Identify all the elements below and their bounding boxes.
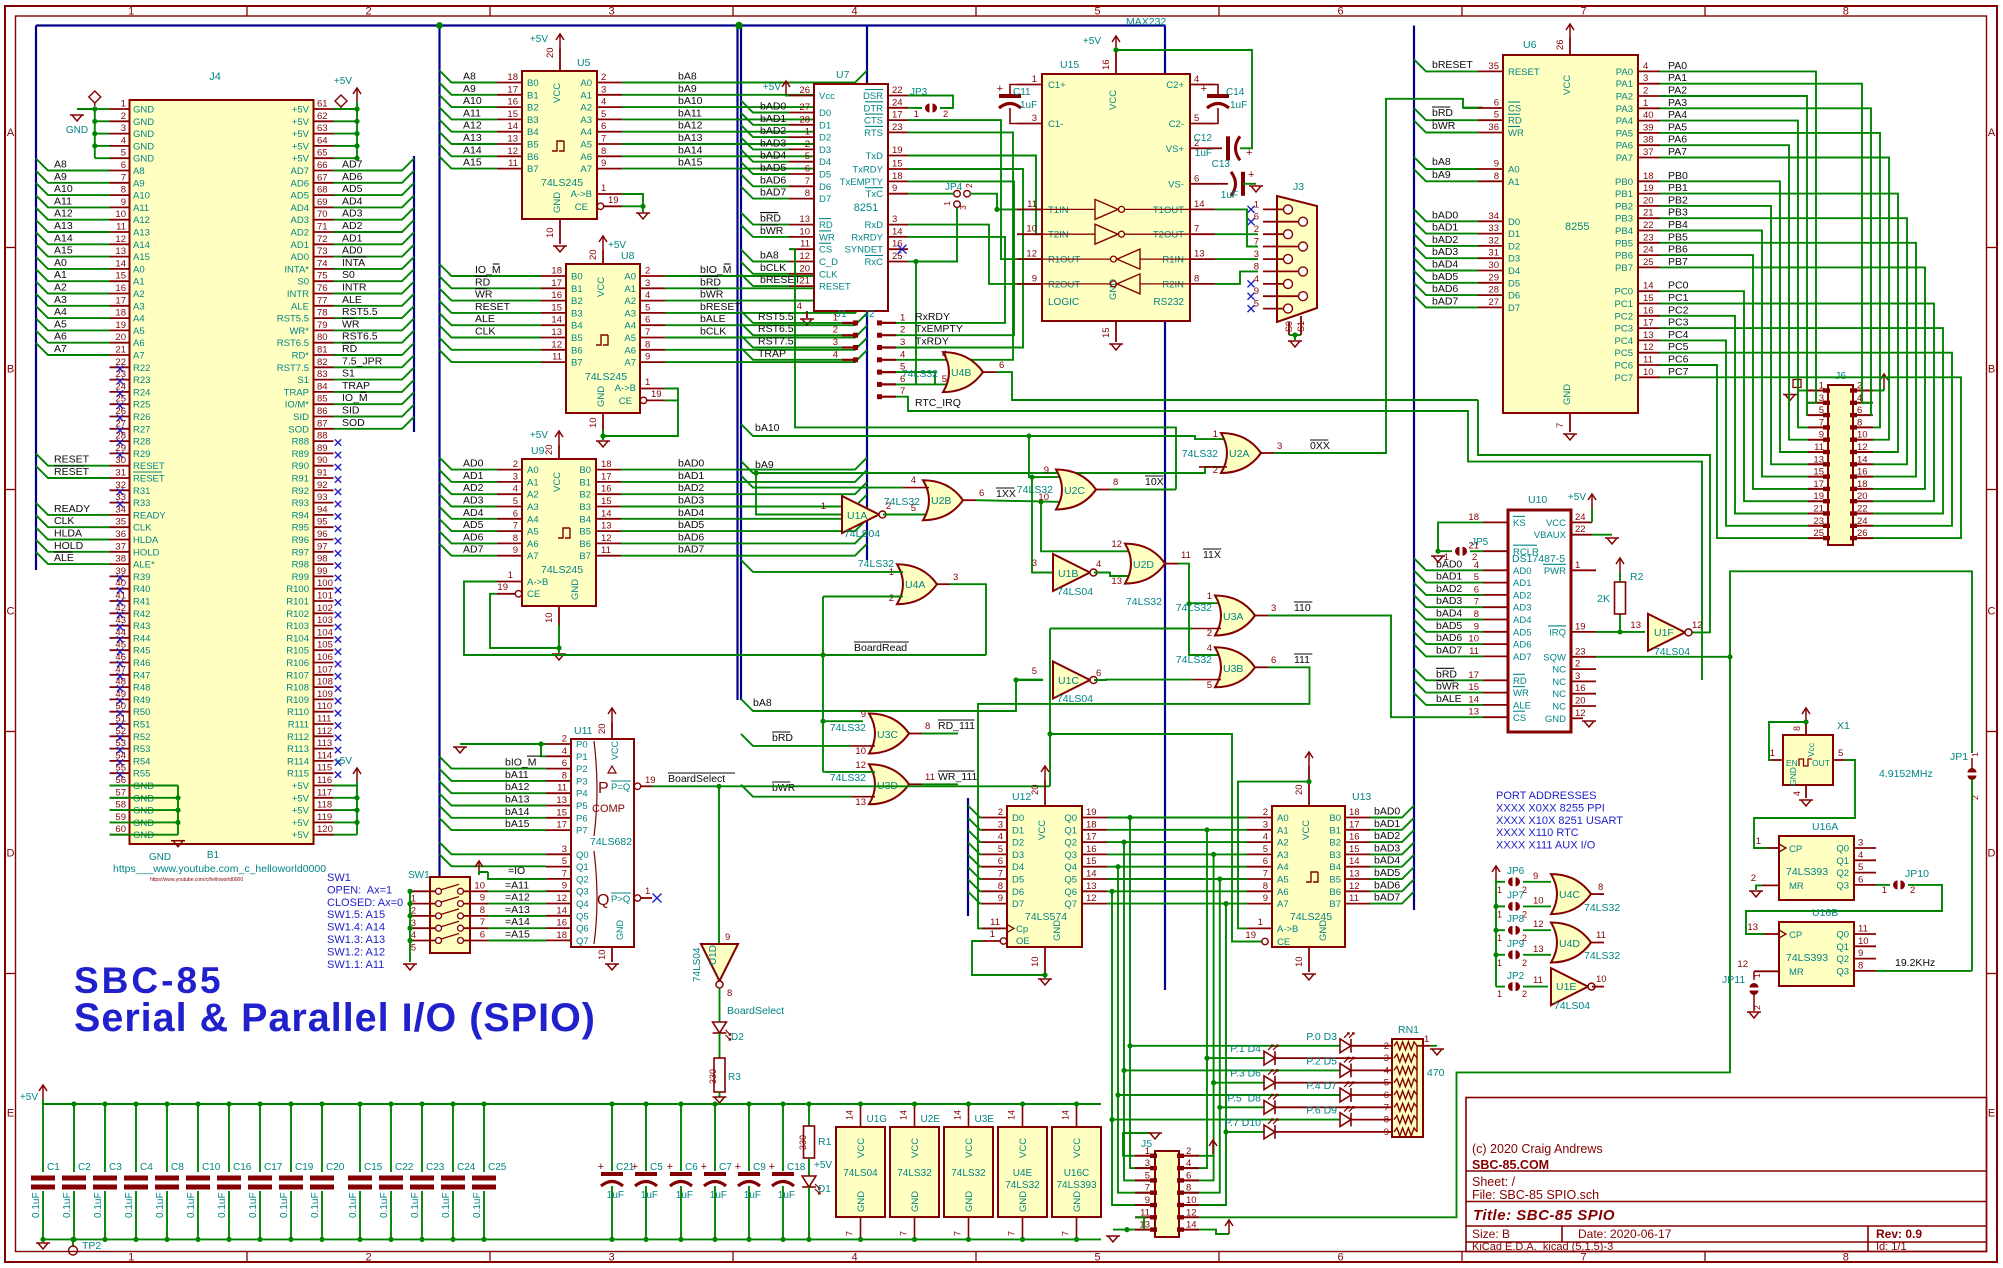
svg-text:R106: R106 [286,658,309,669]
svg-text:Q6: Q6 [576,924,589,935]
U7 pin D6 [789,185,814,187]
svg-text:P=Q: P=Q [611,782,630,793]
svg-text:20: 20 [588,249,599,260]
svg-text:RESET: RESET [54,466,90,478]
svg-text:R45: R45 [133,646,150,657]
U6 pin PB3 [1638,217,1660,219]
svg-text:14: 14 [556,905,567,916]
svg-text:7: 7 [1007,1231,1017,1236]
svg-text:A2: A2 [527,490,539,501]
svg-text:INTR: INTR [287,289,309,300]
svg-text:16: 16 [115,283,126,294]
U12 OE pin 1 [1000,938,1006,944]
wire READY J4 [36,503,110,515]
svg-text:AD1: AD1 [291,240,309,251]
svg-text:15: 15 [507,109,518,120]
svg-text:74LS32: 74LS32 [1005,1180,1040,1191]
svg-text:JP8: JP8 [1507,914,1525,925]
wire bAD0 U13 right [1370,806,1414,818]
capacitor C16 0.1uF [228,1104,230,1172]
svg-text:U4D: U4D [1559,938,1580,950]
ic U16B 74LS393 [1779,922,1854,986]
svg-text:bWR: bWR [1432,120,1456,132]
wire 19.2KHz from U16B Q3 [1876,970,1972,972]
svg-text:113: 113 [317,738,332,749]
capacitor C17 0.1uF [259,1104,261,1172]
wire INTA J4 right [334,257,415,269]
wire bWR [851,796,875,798]
svg-text:CE: CE [1277,937,1290,948]
wire 11X from U2D [1165,563,1178,565]
svg-text:D4: D4 [1012,862,1024,873]
wire bAD5 U10 [1414,620,1483,632]
ic U5 74LS245 [522,71,597,219]
svg-text:10: 10 [545,227,556,238]
svg-text:P>Q: P>Q [611,894,630,905]
U7 pin WR [789,236,814,238]
svg-text:KiCad E.D.A. kicad (5.1.5)-3: KiCad E.D.A. kicad (5.1.5)-3 [1472,1241,1613,1253]
J5 pin 1 ground [1123,1133,1150,1156]
ic U6 8255 [1503,55,1638,413]
svg-text:A1: A1 [1277,825,1289,836]
U10 pin AD0 [1483,569,1508,571]
svg-text:65: 65 [317,148,328,159]
svg-text:28: 28 [799,114,810,125]
svg-text:10: 10 [1858,936,1869,947]
svg-text:78: 78 [317,308,328,319]
wire bCLK U8 right [665,326,867,338]
wire bA10 [741,424,1229,439]
svg-text:+5V: +5V [292,105,310,116]
wire J6 pin 8 [1660,133,1880,428]
svg-text:PB2: PB2 [1615,201,1633,212]
svg-text:VBAUX: VBAUX [1534,530,1567,541]
svg-text:bAD0: bAD0 [1432,209,1458,221]
svg-text:P3: P3 [576,776,588,787]
svg-text:PB6: PB6 [1668,244,1688,256]
wire R1IN to J3-3 [1215,258,1258,260]
svg-text:3: 3 [1145,1158,1150,1169]
svg-text:C22: C22 [395,1162,414,1173]
capacitor C5 1uF [645,1104,647,1171]
U12 VCC +5V [1044,780,1046,806]
svg-text:PWR: PWR [1544,566,1566,577]
U10 pin AD1 [1483,582,1508,584]
svg-text:bAD4: bAD4 [678,507,704,519]
U6 pin PA2 [1638,95,1660,97]
svg-text:VCC: VCC [610,740,620,760]
U7 pin CTS [888,119,908,121]
svg-text:10: 10 [1857,430,1868,441]
svg-text:C20: C20 [326,1162,345,1173]
svg-text:SOD: SOD [342,417,365,429]
svg-text:2: 2 [1910,885,1915,896]
svg-text:U2B: U2B [931,495,951,507]
J3 pin 1 [1284,205,1293,214]
svg-text:9: 9 [998,893,1003,904]
U15 pin C2+ [1190,84,1215,86]
svg-text:2: 2 [1384,1041,1389,1052]
svg-text:A6: A6 [527,539,539,550]
svg-text:A0: A0 [1508,165,1520,176]
svg-text:1: 1 [508,570,513,581]
svg-text:VCC: VCC [1546,518,1566,529]
wire 110 from U3A to U10 CS [1255,615,1268,617]
wire A10 U5 [440,95,498,107]
U16B pin Q3 [1854,970,1876,972]
svg-text:0.1uF: 0.1uF [31,1192,42,1218]
svg-text:11: 11 [1533,975,1543,986]
svg-text:TxC: TxC [866,189,884,200]
svg-text:2: 2 [1751,873,1756,884]
svg-text:A13: A13 [133,228,150,239]
svg-text:VCC: VCC [910,1138,921,1158]
or-gate U4C 74LS32 [1551,874,1591,914]
svg-text:15: 15 [1086,856,1097,867]
svg-text:6: 6 [1096,668,1101,679]
svg-text:AD1: AD1 [1513,578,1531,589]
wire R2IN to J3-8 [1215,271,1258,284]
svg-text:5: 5 [1207,680,1212,691]
svg-text:RN1: RN1 [1398,1024,1419,1036]
wire bAD6 U10 [1414,632,1483,644]
svg-text:TxRDY: TxRDY [915,336,949,348]
svg-text:R93: R93 [292,498,309,509]
svg-text:9: 9 [1384,1127,1389,1138]
svg-text:AD0: AD0 [1513,566,1531,577]
svg-text:A5: A5 [527,527,539,538]
svg-text:6: 6 [1494,98,1499,109]
svg-text:3: 3 [1032,113,1037,124]
svg-text:A1: A1 [1508,177,1520,188]
wire U11 Q2 =IO [488,872,546,879]
svg-text:RESET: RESET [475,301,511,313]
U9 VCC +5V [558,445,560,459]
svg-text:PA6: PA6 [1616,141,1633,152]
svg-text:BoardRead: BoardRead [854,642,907,654]
ic U7 8251 [814,84,888,311]
svg-text:ALE*: ALE* [133,560,155,571]
svg-text:RESET: RESET [1508,67,1540,78]
SW1 element 4 [436,925,442,931]
svg-text:16: 16 [551,290,562,301]
svg-text:A4: A4 [624,321,636,332]
svg-text:D6: D6 [1012,887,1024,898]
svg-text:A7: A7 [1277,899,1289,910]
wire U1B out to U2D [1094,573,1133,577]
svg-text:RTC_IRQ: RTC_IRQ [915,397,961,409]
wire bIO_M U8 right [665,264,867,276]
svg-text:CS: CS [1508,104,1521,115]
svg-text:22: 22 [1643,220,1654,231]
svg-text:9: 9 [1254,286,1259,297]
svg-text:D1: D1 [1508,229,1520,240]
svg-text:2: 2 [365,6,371,18]
svg-text:3: 3 [1271,603,1276,614]
svg-text:115: 115 [317,763,332,774]
svg-text:12: 12 [551,339,562,350]
svg-text:11: 11 [1596,930,1606,941]
ic U13 74LS245 [1272,806,1345,947]
wire J6 pin 18 [1660,267,1925,489]
svg-text:RS232: RS232 [1153,297,1184,308]
svg-text:P5: P5 [576,801,588,812]
svg-text:11: 11 [601,545,611,556]
svg-text:24: 24 [1575,512,1586,523]
svg-text:16: 16 [1086,844,1097,855]
svg-text:4: 4 [900,349,905,360]
svg-text:T2OUT: T2OUT [1153,230,1184,241]
svg-text:JP9: JP9 [1507,939,1525,950]
svg-text:bRD: bRD [772,732,793,744]
svg-text:bA9: bA9 [1432,169,1451,181]
svg-text:19: 19 [1245,930,1256,941]
svg-text:5: 5 [121,148,126,159]
svg-text:JP7: JP7 [1507,890,1525,901]
svg-text:PB4: PB4 [1615,226,1633,237]
svg-text:bALE: bALE [1436,693,1462,705]
svg-text:13: 13 [1086,881,1097,892]
svg-text:U4E: U4E [1013,1168,1033,1179]
svg-text:62: 62 [317,111,328,122]
svg-text:1: 1 [1497,909,1502,919]
svg-text:=A14: =A14 [505,916,530,928]
wire HLDA J4 [36,528,110,540]
svg-text:1uF: 1uF [710,1190,727,1201]
U7 pin TxRDY [888,168,908,170]
svg-text:+5V: +5V [530,34,548,45]
svg-text:37: 37 [115,541,126,552]
svg-text:R98: R98 [292,560,309,571]
svg-text:1: 1 [128,1252,134,1264]
svg-text:Q4: Q4 [576,899,589,910]
svg-text:RTS: RTS [864,128,883,139]
svg-text:PORT ADDRESSES: PORT ADDRESSES [1496,790,1596,802]
U7 pin D5 [789,173,814,175]
svg-text:69: 69 [317,197,328,208]
svg-text:R92: R92 [292,486,309,497]
svg-text:+5V: +5V [292,141,310,152]
wire RTS to U4B input [908,132,1013,359]
svg-text:PC0: PC0 [1615,287,1633,298]
svg-text:70: 70 [317,209,328,220]
SW1 element 2 [436,901,442,907]
svg-text:XXXX X111 AUX I/O: XXXX X111 AUX I/O [1496,840,1596,852]
svg-text:R96: R96 [292,535,309,546]
svg-text:21: 21 [115,345,126,356]
U11 P>Q output pin 1 NC [634,895,640,901]
svg-text:GND: GND [133,818,154,829]
svg-text:R105: R105 [286,646,309,657]
svg-text:U3E: U3E [975,1114,995,1125]
svg-text:18: 18 [551,266,562,277]
svg-text:5: 5 [601,109,606,120]
svg-text:D7: D7 [1508,303,1520,314]
svg-text:5: 5 [1254,299,1259,310]
U7 pin D3 [789,148,814,150]
svg-text:4: 4 [121,135,126,146]
wire bAD3 U10 [1414,595,1483,607]
svg-text:8: 8 [121,185,126,196]
svg-text:WR: WR [819,232,835,243]
svg-text:101: 101 [317,591,333,602]
svg-text:8: 8 [1194,273,1199,284]
svg-text:13: 13 [1643,330,1654,341]
wire U12 D5 bus entry [968,867,982,879]
svg-text:RD: RD [1513,676,1527,687]
svg-text:12: 12 [855,760,866,771]
wire U11 Q0 [440,842,547,854]
wire HOLD J4 [36,540,110,552]
svg-text:Date: 2020-06-17: Date: 2020-06-17 [1578,1227,1672,1241]
svg-text:Q3: Q3 [1064,850,1077,861]
U7 pin D0 [789,112,814,114]
svg-text:U10: U10 [1528,494,1547,506]
wire J6 pin 9 [1660,145,1808,440]
wire A8 J4 [36,159,110,171]
svg-text:1: 1 [914,109,919,120]
svg-text:R29: R29 [133,449,150,460]
svg-text:U4C: U4C [1559,889,1580,901]
svg-text:bA11: bA11 [678,107,702,119]
svg-text:NC: NC [1552,689,1566,700]
wire TxEMPTY to J2-2 [896,181,1014,335]
U15 pin T1IN [1017,208,1042,210]
svg-text:Q2: Q2 [1064,838,1077,849]
svg-text:11: 11 [1349,893,1359,904]
svg-text:RD_111: RD_111 [938,720,975,732]
svg-text:74LS04: 74LS04 [692,947,703,982]
svg-text:3: 3 [953,572,958,583]
svg-text:PC6: PC6 [1668,354,1689,366]
U15 pin VS+ [1190,147,1215,149]
wire A13 U5 [440,132,498,144]
svg-text:A0: A0 [1277,813,1289,824]
svg-text:0.1uF: 0.1uF [93,1192,104,1218]
svg-text:GND: GND [1108,279,1119,300]
vertical P-net wires to J5 and LEDs [1130,818,1155,1169]
svg-text:38: 38 [115,554,126,565]
svg-text:C16: C16 [233,1162,252,1173]
wire bA12 U11 [440,781,547,793]
svg-text:35: 35 [115,517,126,528]
svg-text:1: 1 [1970,752,1980,757]
svg-text:23: 23 [1813,516,1824,527]
svg-text:74LS245: 74LS245 [541,564,583,576]
svg-text:R114: R114 [287,756,309,767]
svg-text:9: 9 [645,352,650,363]
or-gate U2C 74LS32 [1056,470,1096,510]
svg-text:11: 11 [1814,442,1824,453]
svg-text:R52: R52 [133,732,150,743]
wire ALE U8 left [440,313,542,325]
svg-text:B1: B1 [1329,825,1341,836]
svg-text:E: E [7,1108,14,1120]
svg-text:17: 17 [115,295,126,306]
svg-text:R2IN: R2IN [1162,279,1184,290]
U10 pin AD4 [1483,619,1508,621]
svg-text:P7: P7 [576,826,588,837]
svg-text:12: 12 [556,893,567,904]
J5 pin 12 long wire to U16B counter [1199,657,1730,1217]
svg-text:A0: A0 [133,264,145,275]
svg-text:74LS32: 74LS32 [951,1168,986,1179]
svg-text:D1: D1 [819,120,831,131]
U7 pin D4 [789,161,814,163]
svg-text:WR: WR [475,289,493,301]
svg-text:WR*: WR* [289,326,309,337]
svg-text:Q1: Q1 [1064,825,1077,836]
wire A4 J4 [36,306,110,318]
U10 pin AD3 [1483,606,1508,608]
U10 NC pin 16 [1571,693,1596,695]
svg-text:A1: A1 [527,477,539,488]
U5 GND pin 10 [559,219,561,244]
svg-text:VCC: VCC [1018,1138,1029,1158]
svg-text:0.1uF: 0.1uF [155,1192,166,1218]
U7 pin DSR [888,95,908,97]
svg-text:bWR: bWR [772,782,796,794]
svg-text:23: 23 [1575,646,1586,657]
svg-text:Q0: Q0 [1836,930,1849,941]
svg-text:AD2: AD2 [463,482,484,494]
svg-text:VCC: VCC [856,1138,867,1158]
wire U2B input 4 [741,476,903,488]
svg-text:INTA: INTA [342,257,365,269]
svg-text:14: 14 [1007,1110,1017,1120]
svg-text:R33: R33 [133,498,150,509]
svg-text:bAD7: bAD7 [678,544,704,556]
svg-text:11: 11 [800,239,810,250]
svg-text:TxRDY: TxRDY [852,165,883,176]
svg-text:1: 1 [990,929,995,940]
svg-text:8: 8 [1384,1115,1389,1126]
U7 pin RxRDY [888,236,908,238]
svg-text:U2C: U2C [1064,485,1085,497]
svg-text:33: 33 [1488,223,1499,234]
svg-text:R1OUT: R1OUT [1048,255,1080,266]
svg-text:15: 15 [1349,844,1360,855]
svg-text:7: 7 [1580,6,1586,18]
wire A5 J4 [36,318,110,330]
svg-text:21: 21 [1643,208,1654,219]
svg-text:HOLD: HOLD [133,547,160,558]
svg-text:bAD4: bAD4 [1432,259,1458,271]
U15 pin C1- [1017,123,1042,125]
wire J6 pin 7 [1660,121,1808,428]
svg-text:U13: U13 [1352,791,1371,803]
svg-text:bALE: bALE [700,313,726,325]
svg-text:+5V: +5V [292,781,310,792]
svg-text:bA8: bA8 [753,697,772,709]
svg-text:1: 1 [601,183,606,194]
U4B output wire [983,371,996,373]
svg-text:+5V: +5V [292,806,310,817]
wire J6 pin 19 [1660,291,1808,501]
U10 right side pins [1571,521,1592,523]
wire bA13 U5 [622,132,867,144]
svg-text:A12: A12 [133,215,150,226]
svg-text:4.9152MHz: 4.9152MHz [1879,768,1933,780]
svg-text:READY: READY [133,510,166,521]
svg-text:11: 11 [552,352,562,363]
svg-text:6: 6 [513,508,518,519]
U7 pin D2 [789,136,814,138]
svg-text:22: 22 [1857,504,1868,515]
ground symbol J4 top-left [70,115,84,121]
svg-text:80: 80 [317,332,328,343]
svg-text:U2A: U2A [1229,448,1249,460]
